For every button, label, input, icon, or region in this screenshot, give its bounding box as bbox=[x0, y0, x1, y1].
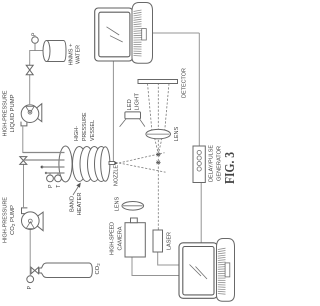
svg-text:LIGHT: LIGHT bbox=[135, 93, 141, 111]
wire liquid pump outlet to vessel bbox=[23, 126, 30, 153]
camera snout bbox=[131, 218, 138, 223]
svg-text:HEATER: HEATER bbox=[77, 193, 83, 216]
svg-text:HIGH-: HIGH- bbox=[74, 126, 80, 141]
svg-text:LASER: LASER bbox=[167, 232, 173, 250]
valve V1 on CO2 bottle bbox=[31, 267, 39, 274]
laptop screen bbox=[179, 243, 218, 298]
wire liquid pump inlet from HNMS cylinder bbox=[30, 51, 43, 106]
laser beam dashed axis bbox=[157, 84, 159, 230]
pump P1 liquid pump volute bbox=[31, 104, 42, 122]
laptop keyboard bbox=[217, 239, 235, 302]
tube B CO2 feed into vessel bbox=[24, 159, 65, 161]
wire nozzle to computer bbox=[112, 61, 114, 161]
valve V3 on HNMS line bbox=[26, 65, 33, 75]
lens L2 camera lens bbox=[122, 202, 144, 211]
svg-text:CO2 PUMP: CO2 PUMP bbox=[10, 205, 16, 235]
svg-text:HIGH-PRESSURE: HIGH-PRESSURE bbox=[3, 90, 9, 136]
svg-text:P: P bbox=[32, 32, 38, 36]
svg-text:LENS: LENS bbox=[115, 197, 121, 212]
wire CO2 pump outlet to valve V2 bbox=[23, 164, 25, 208]
svg-text:DETECTOR: DETECTOR bbox=[182, 68, 188, 98]
LED light rays bbox=[120, 119, 126, 127]
wire CO2 bottle valve to CO2 pump bbox=[29, 229, 31, 275]
wire computer keyboard down to bus bbox=[152, 32, 199, 34]
svg-text:HNMS +: HNMS + bbox=[69, 43, 75, 66]
svg-text:HIGH-SPEED: HIGH-SPEED bbox=[110, 222, 116, 255]
tube A liquid feed into vessel bbox=[23, 152, 65, 154]
HNMS water cylinder bbox=[47, 41, 67, 62]
laser box bbox=[153, 230, 163, 252]
svg-text:VESSEL: VESSEL bbox=[90, 119, 96, 141]
svg-text:CAMERA: CAMERA bbox=[118, 226, 124, 250]
gauge T on vessel bbox=[57, 173, 59, 175]
valve V2 on vessel feed bbox=[20, 157, 27, 165]
svg-text:DELAY/PULSE: DELAY/PULSE bbox=[209, 145, 215, 182]
vessel band 4 bbox=[95, 147, 109, 182]
wire camera to laptop bbox=[132, 257, 179, 276]
wire laser to laptop bbox=[158, 252, 179, 265]
computer monitor screen bbox=[95, 8, 133, 61]
computer keyboard bbox=[132, 3, 153, 64]
wire bus laptop to delay generator bbox=[200, 176, 202, 243]
svg-text:GENERATOR: GENERATOR bbox=[217, 146, 223, 181]
svg-text:WATER: WATER bbox=[76, 45, 82, 64]
vessel band 3 bbox=[88, 147, 102, 182]
pump P2 CO2 pump discharge stub bbox=[22, 208, 28, 214]
tube C capped port bbox=[41, 166, 44, 169]
LED light housing bbox=[125, 112, 141, 119]
svg-text:NOZZLE: NOZZLE bbox=[114, 165, 120, 186]
lens L1 detector lens bbox=[146, 129, 171, 138]
X marker focus point 1 bbox=[156, 153, 161, 156]
svg-text:T: T bbox=[56, 185, 62, 188]
vessel top cap bbox=[59, 146, 72, 182]
svg-text:PRESSURE: PRESSURE bbox=[82, 112, 88, 141]
vessel bottom cap bbox=[101, 147, 110, 182]
spray cone dashed bbox=[119, 163, 166, 172]
detector bar bbox=[138, 80, 178, 84]
gauge P on vessel bbox=[49, 173, 51, 175]
wire bus delay generator to computer bbox=[198, 33, 200, 151]
gauge P on HNMS cylinder bbox=[34, 43, 36, 50]
vessel band 2 bbox=[80, 147, 94, 182]
svg-text:P: P bbox=[27, 285, 33, 289]
dashed rays detector to lens bbox=[148, 84, 152, 130]
tube D gauge manifold bbox=[45, 172, 47, 174]
svg-text:CO2: CO2 bbox=[95, 263, 101, 275]
pump P2 CO2 pump body bbox=[22, 212, 40, 230]
dashed rays lens to focus point bbox=[155, 138, 159, 153]
delay/pulse generator box bbox=[193, 146, 205, 183]
pump P1 liquid pump body bbox=[21, 105, 39, 123]
svg-text:BAND: BAND bbox=[70, 196, 76, 212]
high-speed camera body bbox=[125, 223, 145, 257]
svg-text:HIGH-PRESSURE: HIGH-PRESSURE bbox=[3, 197, 9, 243]
svg-text:FIG. 3: FIG. 3 bbox=[223, 152, 238, 184]
svg-text:LED: LED bbox=[127, 99, 133, 110]
svg-text:P: P bbox=[48, 184, 54, 188]
CO2 bottle cylinder bbox=[39, 263, 92, 278]
pump P2 CO2 pump volute bbox=[31, 212, 43, 231]
svg-text:LENS: LENS bbox=[174, 127, 180, 142]
X marker focus point 2 bbox=[156, 161, 161, 164]
high-pressure vessel band 1 bbox=[73, 147, 87, 182]
nozzle on vessel bbox=[109, 162, 115, 165]
pump P1 liquid pump discharge stub bbox=[21, 121, 27, 126]
svg-text:LIQUID PUMP: LIQUID PUMP bbox=[10, 94, 16, 132]
